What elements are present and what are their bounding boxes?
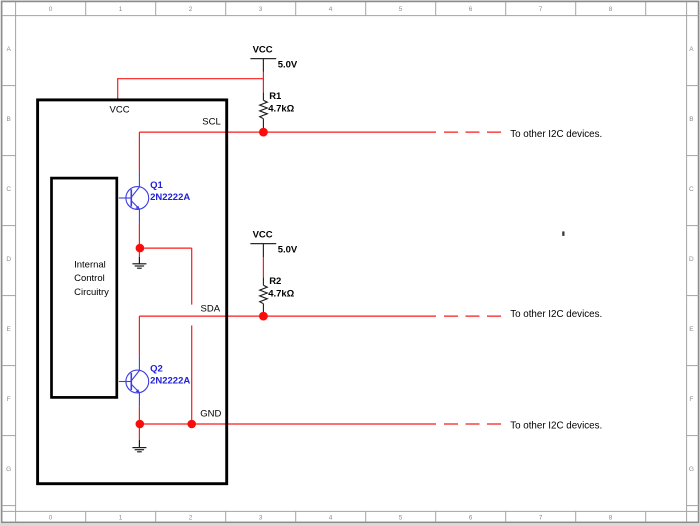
- wire VCC pin drop into device: [117, 78, 119, 99]
- svg-text:G: G: [6, 466, 11, 473]
- svg-text:R2: R2: [269, 276, 281, 287]
- svg-text:3: 3: [259, 6, 263, 13]
- power VCC symbol 2: [250, 244, 276, 257]
- wire Q1 emitter red segment: [138, 223, 140, 248]
- label Q1 part 2N2222A: [150, 192, 190, 203]
- label VCC 2: [253, 230, 273, 241]
- svg-text:To other I2C devices.: To other I2C devices.: [510, 129, 602, 140]
- label R1 value 4.7k: [268, 103, 294, 114]
- resistor R1: [260, 92, 268, 131]
- label Q1: [150, 180, 163, 191]
- power VCC symbol 1: [250, 59, 276, 72]
- svg-text:A: A: [7, 46, 12, 53]
- wire ground stem 1 red part: [138, 248, 140, 257]
- resistor R2: [260, 277, 268, 316]
- svg-text:C: C: [689, 186, 694, 193]
- svg-text:R1: R1: [269, 91, 282, 102]
- svg-text:E: E: [689, 326, 694, 333]
- label Q2 part 2N2222A: [150, 375, 190, 386]
- svg-text:F: F: [689, 396, 693, 403]
- ground symbol 1: [132, 257, 146, 268]
- svg-text:4.7kΩ: 4.7kΩ: [268, 103, 294, 114]
- svg-text:4.7kΩ: 4.7kΩ: [268, 288, 294, 299]
- svg-text:E: E: [7, 326, 12, 333]
- label R2 value 4.7k: [268, 288, 294, 299]
- svg-text:SCL: SCL: [202, 117, 220, 128]
- svg-text:VCC: VCC: [253, 45, 273, 56]
- svg-text:8: 8: [609, 6, 613, 13]
- svg-text:Internal: Internal: [74, 259, 106, 270]
- svg-text:2: 2: [189, 515, 193, 522]
- wire Q2 emitter red segment: [138, 406, 140, 424]
- svg-text:3: 3: [259, 515, 263, 522]
- svg-text:8: 8: [609, 515, 613, 522]
- svg-text:1: 1: [119, 6, 123, 13]
- stray mark: [562, 231, 564, 236]
- svg-text:Control: Control: [74, 273, 105, 284]
- ground symbol 2: [132, 440, 146, 452]
- wire GND dashed continuation: [444, 423, 501, 425]
- wire SDA horizontal net: [139, 315, 436, 317]
- wire GND horizontal net: [140, 423, 436, 425]
- svg-text:6: 6: [469, 515, 473, 522]
- svg-text:SDA: SDA: [201, 304, 221, 315]
- wire SDA vertical (Q2 collector, red part): [138, 316, 140, 355]
- svg-text:2N2222A: 2N2222A: [150, 375, 190, 386]
- svg-text:To other I2C devices.: To other I2C devices.: [510, 420, 602, 431]
- label 5.0V 2: [278, 245, 298, 256]
- svg-text:5: 5: [399, 515, 403, 522]
- note to other I2C devices (GND): [510, 420, 602, 431]
- note to other I2C devices (SDA): [510, 309, 602, 320]
- svg-text:5.0V: 5.0V: [278, 245, 298, 256]
- transistor Q2: [119, 355, 149, 406]
- svg-text:Circuitry: Circuitry: [74, 287, 109, 298]
- wire vertical drop upper (crosses SDA with gap): [191, 248, 193, 305]
- label GND pin: [200, 408, 221, 419]
- label Q2: [150, 364, 163, 375]
- junction dot GND branch: [187, 420, 196, 429]
- svg-text:B: B: [689, 116, 693, 123]
- device outline box: [38, 100, 227, 484]
- svg-text:0: 0: [49, 6, 53, 13]
- svg-text:GND: GND: [200, 408, 221, 419]
- svg-text:G: G: [689, 466, 694, 473]
- svg-text:To other I2C devices.: To other I2C devices.: [510, 309, 602, 320]
- wire vertical drop lower to GND net: [191, 326, 193, 425]
- svg-text:7: 7: [539, 6, 543, 13]
- svg-text:5.0V: 5.0V: [278, 60, 298, 71]
- svg-text:0: 0: [49, 515, 53, 522]
- svg-text:VCC: VCC: [253, 230, 273, 241]
- svg-text:C: C: [6, 186, 11, 193]
- wire SCL horizontal net: [139, 131, 436, 133]
- wire emitter junction to right: [140, 247, 192, 249]
- svg-text:2N2222A: 2N2222A: [150, 192, 190, 203]
- label VCC 1: [253, 45, 273, 56]
- label VCC pin: [110, 105, 130, 116]
- label 5.0V 1: [278, 60, 298, 71]
- junction dot Q1 emitter: [136, 244, 145, 253]
- label R2: [269, 276, 281, 287]
- wire R1 upper red segment: [262, 72, 264, 92]
- label SDA pin: [201, 304, 221, 315]
- transistor Q1: [119, 172, 149, 224]
- svg-text:4: 4: [329, 6, 333, 13]
- svg-text:D: D: [689, 256, 694, 263]
- internal control circuitry block: [52, 178, 117, 397]
- svg-text:VCC: VCC: [110, 105, 130, 116]
- svg-text:F: F: [7, 396, 11, 403]
- svg-text:Q2: Q2: [150, 364, 163, 375]
- wire SCL vertical (Q1 collector, red part): [138, 132, 140, 172]
- wire R2 upper red segment: [262, 257, 264, 277]
- note to other I2C devices (SCL): [510, 129, 602, 140]
- svg-text:2: 2: [189, 6, 193, 13]
- svg-text:Q1: Q1: [150, 180, 163, 191]
- junction dot Q2 emitter / GND: [136, 420, 145, 429]
- svg-text:5: 5: [399, 6, 403, 13]
- wire ground stem 2 red part: [138, 424, 140, 440]
- svg-text:4: 4: [329, 515, 333, 522]
- junction dot SDA/R2: [259, 312, 268, 321]
- wire VCC rail horizontal to device: [118, 78, 264, 80]
- wire SCL dashed continuation: [444, 131, 501, 133]
- junction dot SCL/R1: [259, 128, 268, 137]
- svg-text:A: A: [689, 46, 694, 53]
- svg-text:B: B: [7, 116, 11, 123]
- svg-text:D: D: [6, 256, 11, 263]
- wire SDA dashed continuation: [444, 315, 501, 317]
- svg-text:1: 1: [119, 515, 123, 522]
- label R1: [269, 91, 282, 102]
- label SCL pin: [202, 117, 220, 128]
- svg-text:6: 6: [469, 6, 473, 13]
- svg-text:7: 7: [539, 515, 543, 522]
